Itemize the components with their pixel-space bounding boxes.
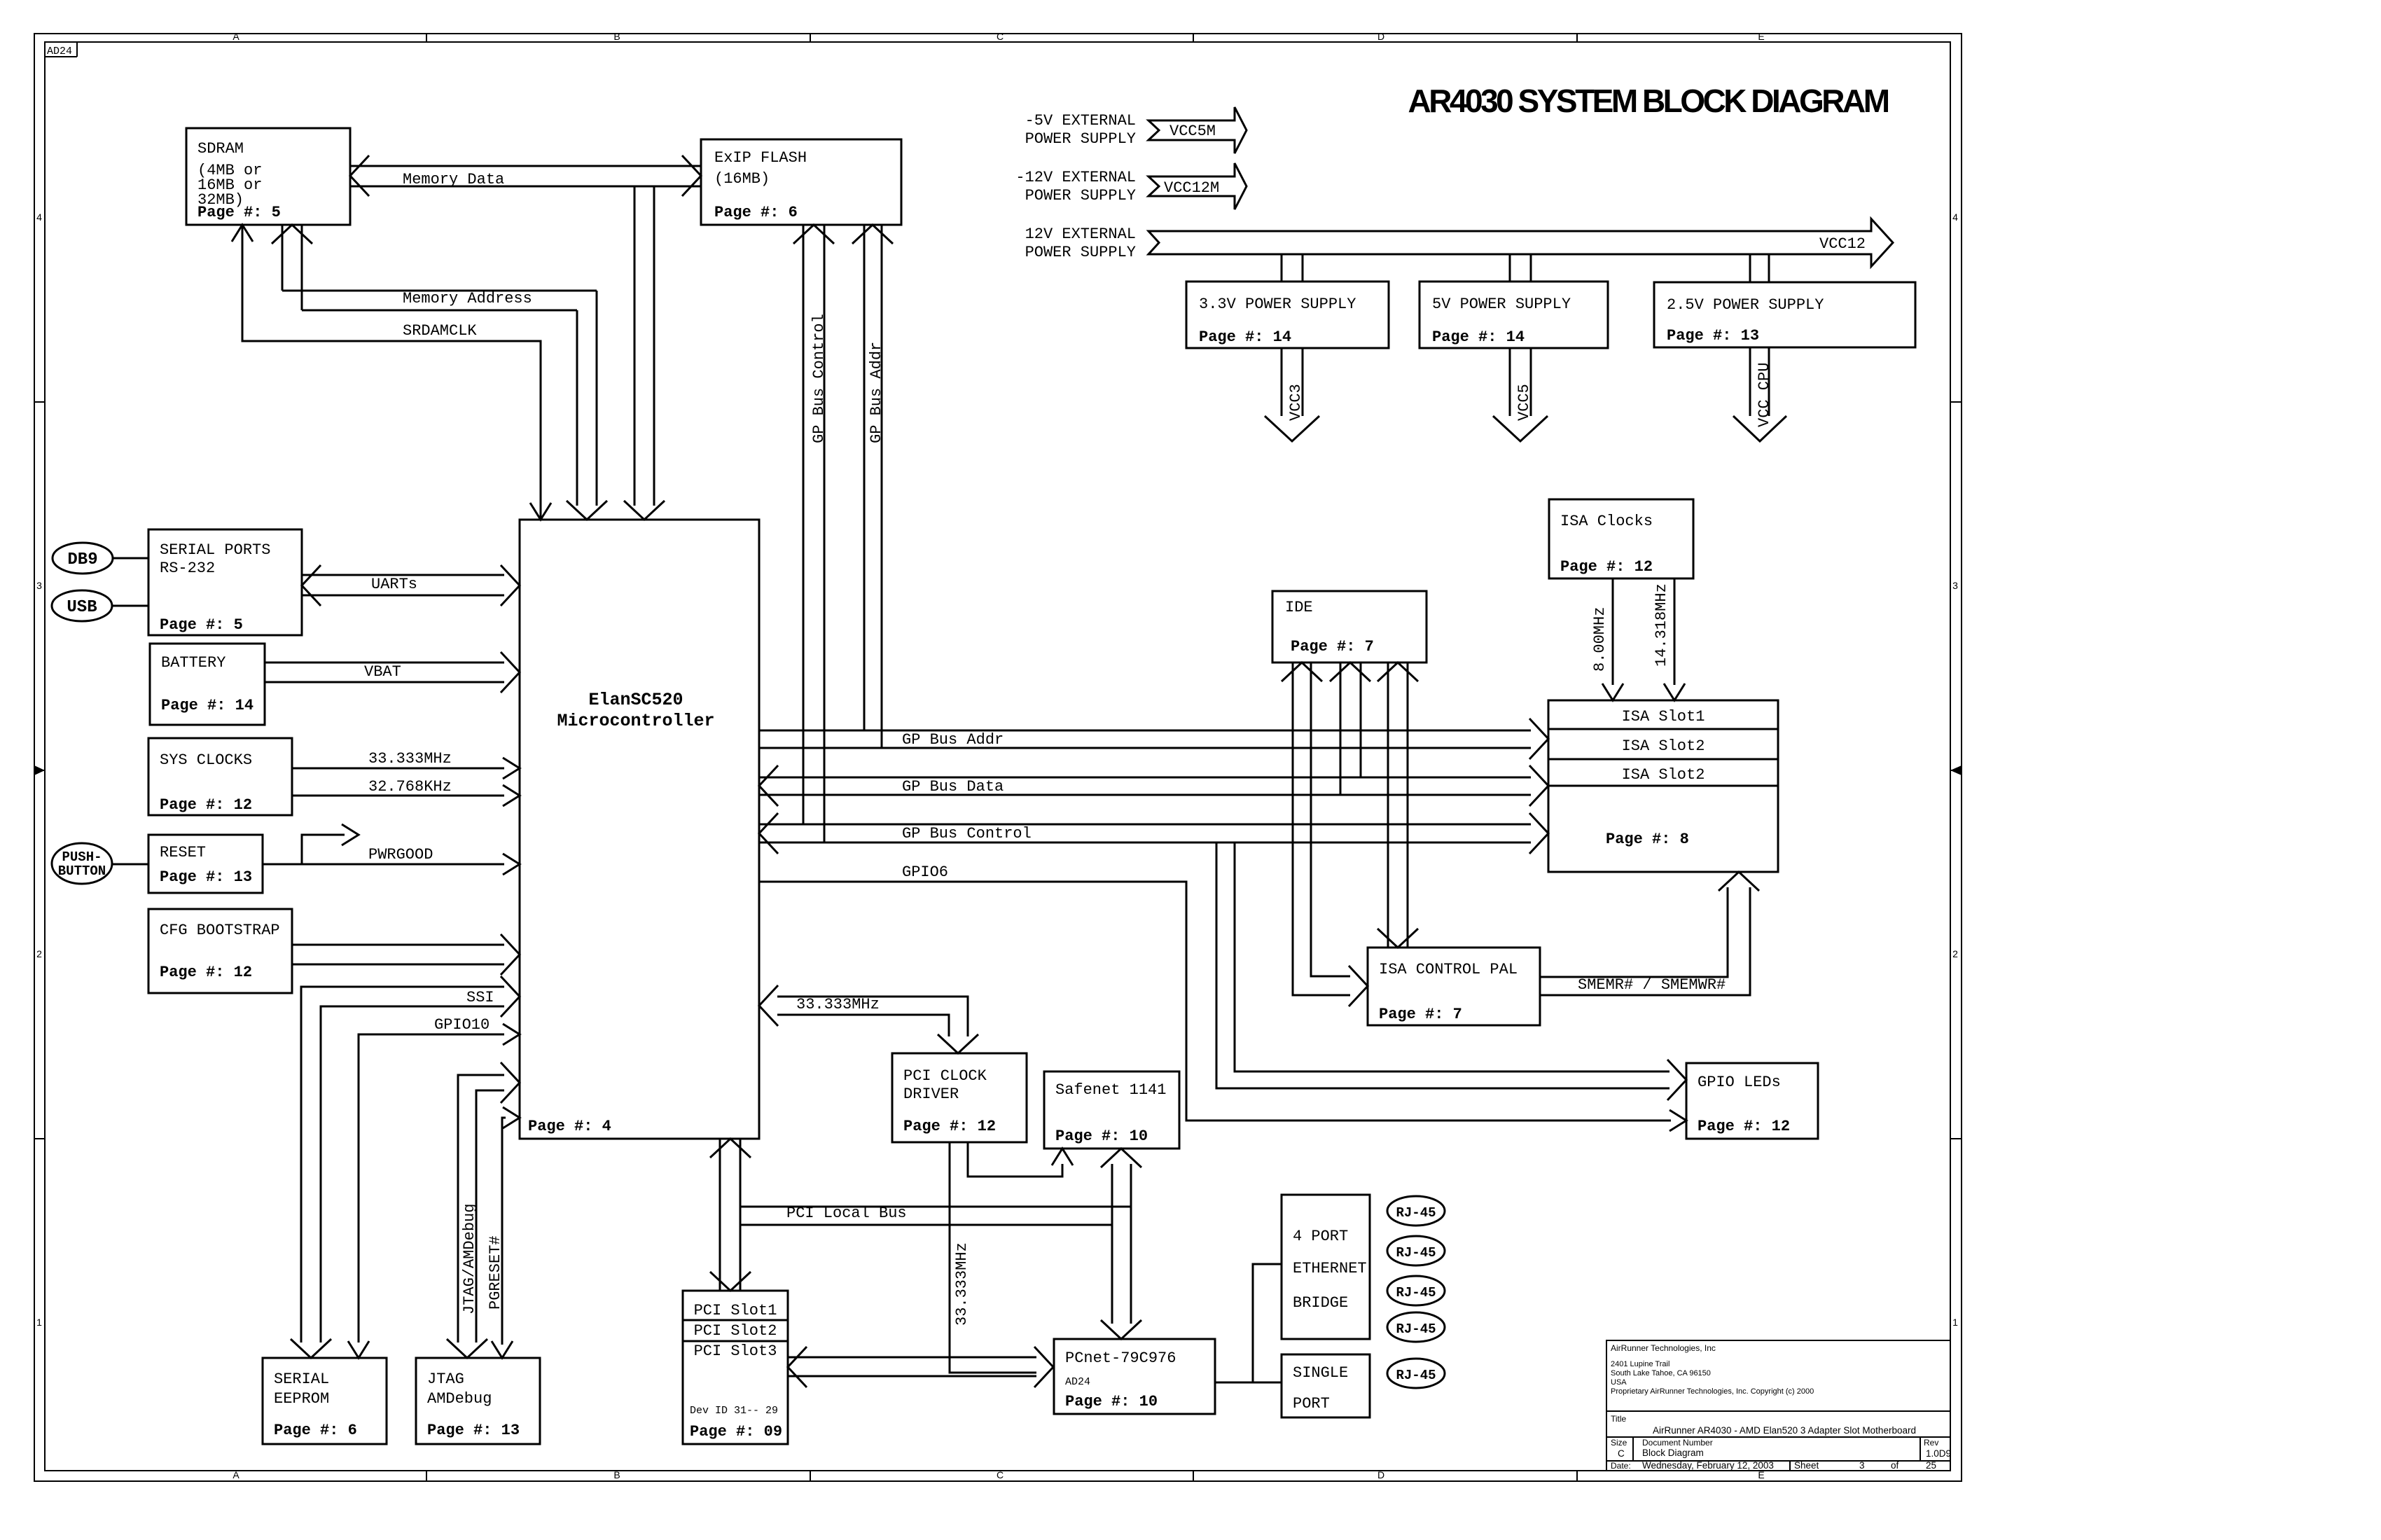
svg-text:AD24: AD24 (1065, 1376, 1090, 1388)
wire 32.768KHz from SYS CLOCKS (292, 795, 504, 797)
bus CFG BOOTSTRAP to ElanSC520 (292, 944, 504, 946)
svg-text:DB9: DB9 (67, 550, 97, 569)
block ISA CONTROL PAL (1368, 948, 1540, 1025)
svg-text:PCI Slot3: PCI Slot3 (694, 1343, 777, 1360)
svg-text:5V POWER SUPPLY: 5V POWER SUPPLY (1432, 296, 1571, 313)
wire 12V tap to 3.3V supply (1281, 254, 1283, 282)
svg-text:Page #: 12: Page #: 12 (903, 1118, 996, 1135)
svg-text:4: 4 (1952, 211, 1958, 223)
connector RJ-45 4 (1387, 1312, 1445, 1342)
svg-text:Page #: 10: Page #: 10 (1065, 1393, 1158, 1410)
block SERIAL PORTS RS-232 (148, 529, 302, 635)
power bus 12V to VCC12 (1148, 219, 1893, 267)
svg-text:PCI Local Bus: PCI Local Bus (786, 1205, 907, 1222)
wire GPIO10 (359, 1034, 504, 1343)
svg-text:VCC5: VCC5 (1515, 384, 1533, 421)
wire PWRGOOD (263, 863, 504, 866)
svg-text:PUSH-: PUSH- (62, 849, 102, 865)
bus VBAT (265, 662, 504, 664)
title block (1606, 1340, 1950, 1471)
svg-text:EEPROM: EEPROM (274, 1390, 329, 1408)
bus SSI (301, 987, 504, 1343)
bus GP Bus Control (759, 824, 1531, 826)
wire PWRGOOD branch arrow (302, 835, 345, 864)
svg-text:14.318MHz: 14.318MHz (1653, 583, 1670, 667)
power arrow VCC3 (1281, 348, 1283, 416)
bus Memory Address (282, 290, 597, 292)
svg-text:RS-232: RS-232 (160, 560, 215, 577)
bus PCI Local Bus branch (740, 1206, 1131, 1208)
svg-text:AMDebug: AMDebug (427, 1390, 492, 1408)
svg-text:RJ-45: RJ-45 (1396, 1205, 1436, 1221)
svg-text:POWER SUPPLY: POWER SUPPLY (1025, 244, 1136, 261)
svg-text:ElanSC520: ElanSC520 (588, 690, 683, 710)
svg-text:C: C (1618, 1448, 1625, 1459)
wire DB9 to SERIAL PORTS (113, 557, 148, 560)
svg-text:8.00MHz: 8.00MHz (1591, 607, 1609, 672)
svg-text:25: 25 (1926, 1460, 1936, 1471)
svg-text:DRIVER: DRIVER (903, 1085, 959, 1103)
svg-text:GPIO10: GPIO10 (434, 1016, 490, 1034)
block U1 ElanSC520 Microcontroller (520, 520, 759, 1139)
svg-text:Page #: 4: Page #: 4 (528, 1118, 611, 1135)
svg-text:-12V EXTERNAL: -12V EXTERNAL (1015, 169, 1136, 186)
svg-text:Dev ID 31-- 29: Dev ID 31-- 29 (690, 1405, 778, 1417)
svg-text:2401 Lupine Trail: 2401 Lupine Trail (1611, 1360, 1670, 1368)
bus PCI Slots to PCnet (788, 1357, 1036, 1359)
svg-text:SINGLE: SINGLE (1293, 1364, 1348, 1382)
svg-text:GPIO LEDs: GPIO LEDs (1698, 1074, 1781, 1091)
bus UARTs (302, 574, 504, 576)
block IDE (1272, 591, 1426, 663)
wire USB to SERIAL PORTS (112, 605, 148, 607)
svg-text:Page #: 7: Page #: 7 (1291, 638, 1374, 655)
svg-text:Wednesday, February 12, 2003: Wednesday, February 12, 2003 (1642, 1460, 1774, 1471)
bus GP Bus Addr vertical to ExIP FLASH (863, 225, 866, 730)
svg-text:12V EXTERNAL: 12V EXTERNAL (1025, 226, 1136, 243)
svg-text:SMEMR# / SMEMWR#: SMEMR# / SMEMWR# (1578, 976, 1726, 994)
svg-text:RESET: RESET (160, 844, 206, 861)
svg-text:SERIAL: SERIAL (274, 1371, 329, 1388)
svg-text:AirRunner Technologies, Inc: AirRunner Technologies, Inc (1611, 1343, 1716, 1353)
bus 33.333MHz ElanSC520 to PCI CLOCK DRIVER (777, 997, 968, 1036)
svg-text:SDRAM: SDRAM (197, 140, 244, 158)
block 3.3V POWER SUPPLY (1186, 282, 1389, 348)
connector RJ-45 2 (1387, 1236, 1445, 1265)
block CFG BOOTSTRAP (148, 909, 292, 993)
wire 12V tap to 5V supply (1509, 254, 1511, 282)
wire PUSH-BUTTON to RESET (112, 863, 148, 866)
sheet code AD24 corner box (45, 56, 77, 57)
svg-text:VBAT: VBAT (364, 663, 401, 681)
svg-text:JTAG/AMDebug: JTAG/AMDebug (461, 1204, 478, 1314)
svg-text:BUTTON: BUTTON (58, 863, 106, 879)
bus GP Bus Addr (759, 730, 1531, 732)
svg-text:C: C (997, 1469, 1004, 1480)
svg-text:Size: Size (1611, 1438, 1627, 1448)
svg-text:VCC_CPU: VCC_CPU (1756, 363, 1773, 427)
svg-text:PGRESET#: PGRESET# (487, 1235, 504, 1310)
svg-text:B: B (613, 31, 620, 42)
svg-text:Page #: 12: Page #: 12 (160, 796, 252, 814)
svg-text:1.0D9: 1.0D9 (1926, 1448, 1951, 1459)
bus GP Bus Control vertical to ExIP FLASH (803, 225, 805, 824)
svg-text:Safenet 1141: Safenet 1141 (1055, 1081, 1166, 1099)
svg-text:USB: USB (67, 598, 97, 617)
svg-text:A: A (232, 1469, 240, 1480)
wire 14.318MHz (1674, 578, 1676, 685)
block Safenet 1141 (1044, 1071, 1179, 1149)
connector RJ-45 1 (1387, 1196, 1445, 1226)
svg-text:Rev: Rev (1924, 1438, 1938, 1448)
wire 8.00MHz (1612, 578, 1614, 685)
svg-text:Page #: 12: Page #: 12 (1560, 558, 1653, 576)
bus IDE tap to GP Bus Data (1340, 663, 1342, 795)
svg-text:2: 2 (36, 948, 42, 959)
svg-text:VCC3: VCC3 (1287, 384, 1305, 421)
svg-text:Memory Address: Memory Address (403, 290, 532, 307)
block 2.5V POWER SUPPLY (1654, 282, 1915, 347)
svg-text:GPIO6: GPIO6 (902, 863, 948, 881)
svg-text:33.333MHz: 33.333MHz (953, 1242, 971, 1326)
svg-text:JTAG: JTAG (427, 1371, 464, 1388)
svg-text:Page #: 13: Page #: 13 (1667, 327, 1759, 345)
wire 33.333MHz PCI CLOCK DRIVER to PCnet (950, 1142, 1036, 1373)
svg-text:ISA CONTROL PAL: ISA CONTROL PAL (1379, 961, 1518, 978)
bus GP Bus Data (759, 777, 1531, 779)
power arrow VCC5M (1148, 107, 1247, 153)
svg-text:PCI CLOCK: PCI CLOCK (903, 1067, 987, 1085)
block RESET (148, 835, 263, 893)
svg-text:2.5V POWER SUPPLY: 2.5V POWER SUPPLY (1667, 296, 1824, 314)
svg-text:RJ-45: RJ-45 (1396, 1368, 1436, 1383)
block JTAG AMDebug (416, 1358, 540, 1444)
svg-text:GP Bus Control: GP Bus Control (902, 825, 1032, 842)
bus Memory Data tap to ElanSC520 (634, 186, 636, 506)
svg-text:1: 1 (1952, 1317, 1958, 1328)
border frame (34, 34, 1962, 1481)
svg-text:SRDAMCLK: SRDAMCLK (403, 322, 477, 340)
svg-text:Page #: 8: Page #: 8 (1606, 831, 1689, 848)
svg-text:Page #: 5: Page #: 5 (160, 616, 243, 634)
block PCI CLOCK DRIVER (892, 1053, 1027, 1142)
svg-text:POWER SUPPLY: POWER SUPPLY (1025, 130, 1136, 148)
wire 12V tap to 2.5V supply (1749, 254, 1751, 282)
bus SMEMR# / SMEMWR# (1540, 887, 1728, 977)
wire PCnet to 4 PORT ETHERNET BRIDGE (1253, 1264, 1282, 1382)
svg-text:PWRGOOD: PWRGOOD (368, 846, 433, 863)
svg-text:RJ-45: RJ-45 (1396, 1285, 1436, 1300)
svg-text:ExIP FLASH: ExIP FLASH (714, 149, 807, 167)
bus IDE tap to GP Bus Addr / ISA CONTROL PAL (1293, 663, 1350, 995)
svg-text:Page #: 6: Page #: 6 (714, 204, 798, 221)
svg-text:Page #: 13: Page #: 13 (427, 1422, 520, 1439)
svg-text:3: 3 (1952, 580, 1958, 591)
svg-text:Page #: 14: Page #: 14 (1432, 328, 1525, 346)
svg-text:GP Bus Addr: GP Bus Addr (902, 731, 1004, 749)
wire SRDAMCLK (242, 225, 541, 520)
bus GP Bus Control drop to GPIO LEDs (1216, 842, 1670, 1088)
wire PGRESET# (502, 1118, 506, 1345)
block PCnet-79C976 (1054, 1339, 1215, 1414)
svg-text:B: B (613, 1469, 620, 1480)
svg-text:UARTs: UARTs (371, 576, 417, 593)
svg-text:Page #: 12: Page #: 12 (1698, 1118, 1790, 1135)
bus JTAG/AMDebug (458, 1075, 504, 1343)
block GPIO LEDs (1686, 1063, 1818, 1139)
svg-text:SYS CLOCKS: SYS CLOCKS (160, 751, 252, 769)
svg-text:GP Bus Data: GP Bus Data (902, 778, 1004, 796)
svg-text:Sheet: Sheet (1794, 1460, 1819, 1471)
svg-text:PCnet-79C976: PCnet-79C976 (1065, 1350, 1176, 1367)
power arrow VCC5 (1509, 348, 1511, 416)
wire PCI CLOCK DRIVER to Safenet (968, 1142, 1062, 1177)
wire 33.333MHz from SYS CLOCKS (292, 768, 504, 770)
svg-text:SERIAL PORTS: SERIAL PORTS (160, 541, 270, 559)
svg-text:South Lake Tahoe, CA 96150: South Lake Tahoe, CA 96150 (1611, 1369, 1711, 1378)
block 4 PORT ETHERNET BRIDGE (1282, 1195, 1370, 1339)
svg-text:AR4030 SYSTEM BLOCK DIAGRAM: AR4030 SYSTEM BLOCK DIAGRAM (1408, 83, 1888, 119)
svg-text:SSI: SSI (466, 989, 494, 1006)
wire PCnet to SINGLE PORT (1215, 1382, 1282, 1384)
connector PUSH-BUTTON (52, 843, 112, 884)
svg-text:33.333MHz: 33.333MHz (796, 996, 880, 1013)
svg-text:Page #: 09: Page #: 09 (690, 1423, 782, 1441)
svg-text:ETHERNET: ETHERNET (1293, 1260, 1367, 1277)
svg-text:VCC5M: VCC5M (1169, 123, 1216, 140)
svg-text:PORT: PORT (1293, 1395, 1330, 1413)
svg-text:VCC12: VCC12 (1819, 235, 1866, 253)
power arrow VCC_CPU (1749, 347, 1751, 416)
svg-text:Date:: Date: (1611, 1461, 1631, 1471)
svg-text:Memory Data: Memory Data (403, 171, 504, 188)
svg-text:USA: USA (1611, 1378, 1627, 1387)
svg-text:Page #: 14: Page #: 14 (161, 697, 254, 714)
power arrow VCC12M (1148, 163, 1247, 209)
svg-text:AD24: AD24 (47, 46, 72, 57)
svg-text:RJ-45: RJ-45 (1396, 1245, 1436, 1261)
svg-text:RJ-45: RJ-45 (1396, 1322, 1436, 1337)
svg-text:32.768KHz: 32.768KHz (368, 778, 452, 796)
wire GPIO6 to GPIO LEDs (759, 882, 1671, 1121)
svg-text:PCI Slot2: PCI Slot2 (694, 1322, 777, 1340)
block SYS CLOCKS (148, 738, 292, 815)
svg-text:BRIDGE: BRIDGE (1293, 1294, 1348, 1312)
svg-text:AirRunner AR4030 - AMD Elan520: AirRunner AR4030 - AMD Elan520 3 Adapter… (1653, 1425, 1916, 1436)
block PCI Slots (683, 1291, 788, 1444)
svg-text:2: 2 (1952, 948, 1958, 959)
svg-text:GP Bus Addr: GP Bus Addr (868, 342, 885, 443)
svg-text:Page #: 5: Page #: 5 (197, 204, 281, 221)
svg-text:PCI Slot1: PCI Slot1 (694, 1302, 777, 1319)
svg-text:C: C (997, 31, 1004, 42)
bus PCI Local Bus to Safenet and PCnet (1111, 1164, 1113, 1324)
svg-text:(16MB): (16MB) (714, 170, 770, 188)
svg-text:3: 3 (36, 580, 42, 591)
block ISA Slots (1548, 700, 1778, 872)
svg-text:ISA Slot2: ISA Slot2 (1622, 737, 1705, 755)
connector DB9 (53, 543, 113, 574)
block SERIAL EEPROM (263, 1358, 387, 1444)
svg-text:4 PORT: 4 PORT (1293, 1228, 1348, 1245)
block ExIP FLASH (701, 139, 901, 225)
svg-text:of: of (1891, 1460, 1899, 1471)
svg-text:CFG BOOTSTRAP: CFG BOOTSTRAP (160, 922, 280, 939)
connector RJ-45 3 (1387, 1276, 1445, 1305)
block SINGLE PORT (1282, 1354, 1370, 1417)
svg-text:Title: Title (1611, 1414, 1627, 1424)
connector RJ-45 5 (1387, 1359, 1445, 1388)
svg-text:Page #: 14: Page #: 14 (1199, 328, 1291, 346)
svg-text:-5V EXTERNAL: -5V EXTERNAL (1025, 112, 1136, 130)
svg-text:A: A (232, 31, 240, 42)
svg-text:Proprietary AirRunner Technolo: Proprietary AirRunner Technologies, Inc.… (1611, 1387, 1814, 1396)
bus PCI Local Bus vertical (719, 1139, 721, 1291)
bus Memory Data (350, 165, 701, 167)
svg-text:D: D (1377, 31, 1384, 42)
block BATTERY (150, 644, 265, 725)
block SDRAM (186, 128, 350, 225)
svg-text:Page #: 6: Page #: 6 (274, 1422, 357, 1439)
svg-text:33.333MHz: 33.333MHz (368, 750, 452, 768)
block 5V POWER SUPPLY (1419, 282, 1608, 348)
svg-text:Page #: 7: Page #: 7 (1379, 1006, 1462, 1023)
svg-text:ISA Slot1: ISA Slot1 (1622, 708, 1705, 726)
svg-text:Microcontroller: Microcontroller (557, 711, 714, 731)
svg-text:Page #: 10: Page #: 10 (1055, 1128, 1148, 1145)
connector USB (52, 590, 112, 621)
svg-text:Page #: 13: Page #: 13 (160, 868, 252, 886)
svg-text:Page #: 12: Page #: 12 (160, 964, 252, 981)
svg-text:3.3V POWER SUPPLY: 3.3V POWER SUPPLY (1199, 296, 1356, 313)
bus IDE tap to ISA CONTROL PAL top (1387, 663, 1389, 948)
svg-text:Document Number: Document Number (1642, 1438, 1713, 1448)
svg-text:ISA Slot2: ISA Slot2 (1622, 766, 1705, 784)
svg-text:ISA Clocks: ISA Clocks (1560, 513, 1653, 530)
svg-text:E: E (1758, 31, 1764, 42)
svg-text:D: D (1377, 1469, 1384, 1480)
block ISA Clocks (1549, 499, 1693, 578)
fold marks (34, 765, 45, 775)
svg-text:POWER SUPPLY: POWER SUPPLY (1025, 187, 1136, 204)
svg-text:VCC12M: VCC12M (1164, 179, 1219, 197)
svg-text:3: 3 (1859, 1460, 1865, 1471)
svg-text:IDE: IDE (1285, 599, 1313, 616)
svg-text:GP Bus Control: GP Bus Control (810, 314, 828, 443)
svg-text:1: 1 (36, 1317, 42, 1328)
svg-text:Block Diagram: Block Diagram (1642, 1448, 1704, 1458)
svg-text:4: 4 (36, 211, 42, 223)
svg-text:BATTERY: BATTERY (161, 654, 225, 672)
